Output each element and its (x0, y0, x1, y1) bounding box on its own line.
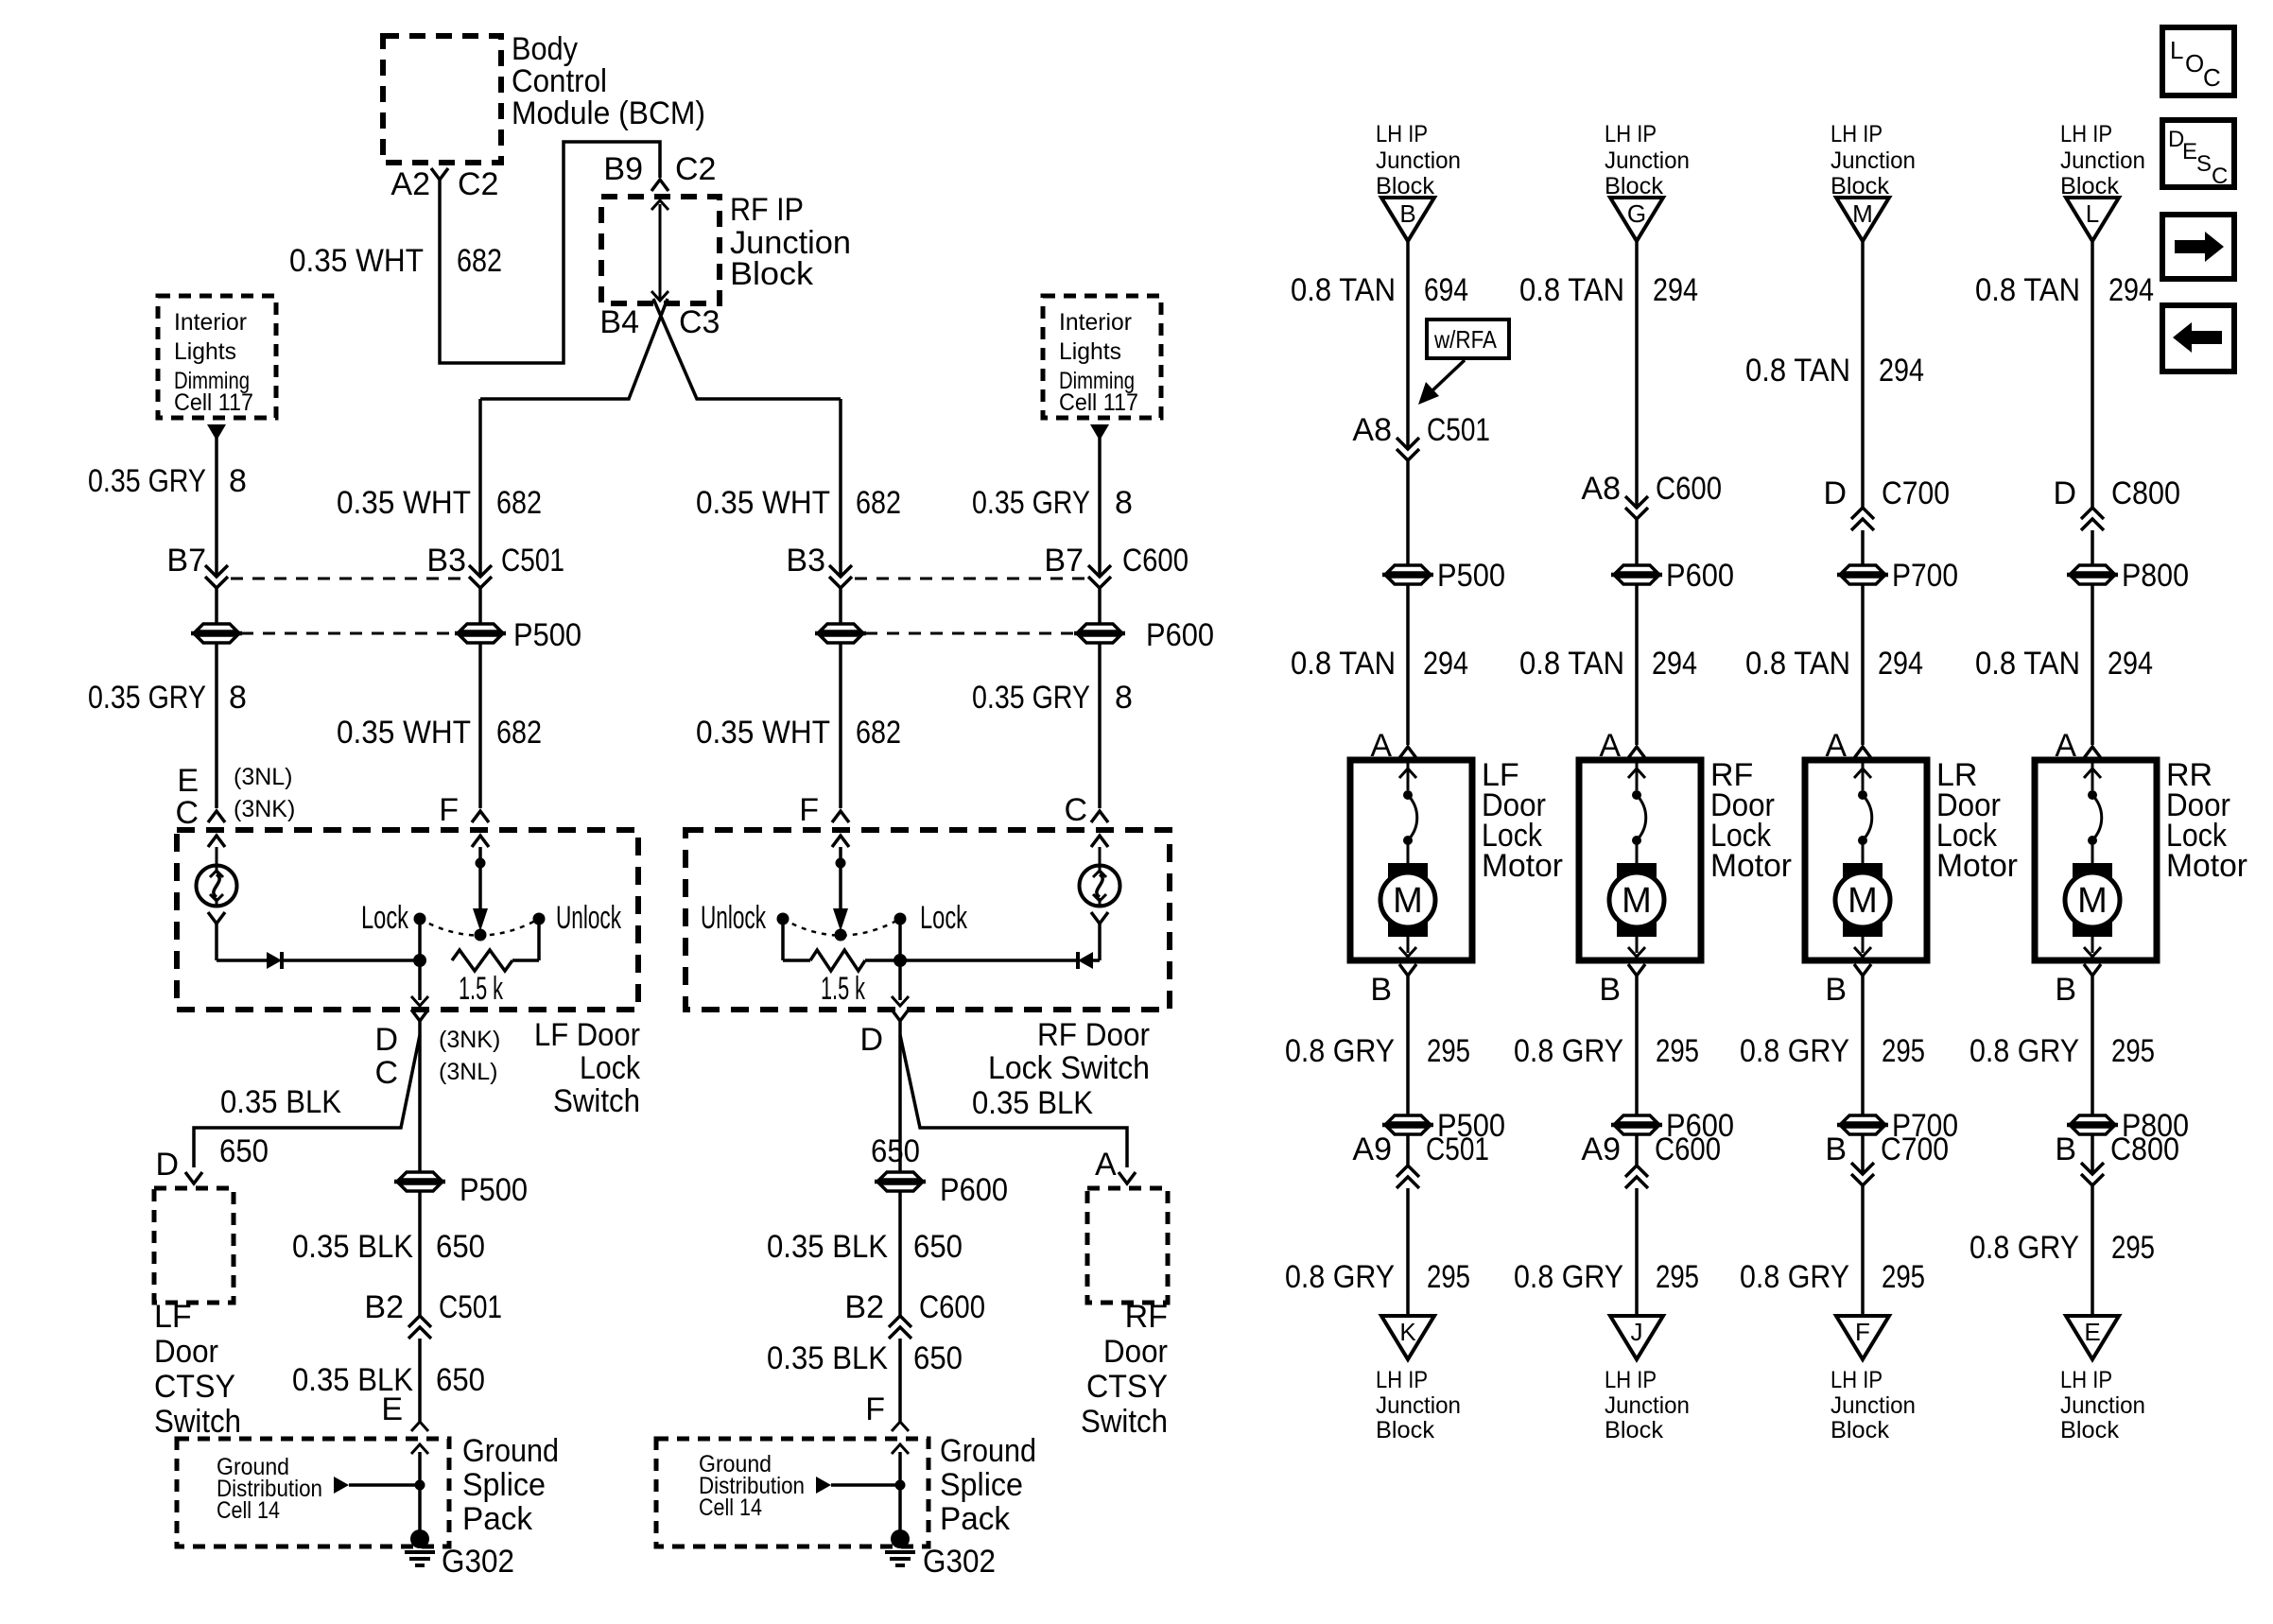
svg-text:C: C (175, 795, 199, 831)
svg-text:B: B (1399, 199, 1415, 228)
svg-text:Switch: Switch (154, 1404, 241, 1440)
svg-text:Junction: Junction (2060, 1392, 2145, 1419)
svg-text:Interior: Interior (174, 309, 247, 336)
Lock contact LF (361, 900, 426, 960)
w/RFA flag box (1427, 320, 1509, 358)
LH IP junction block label bottom LR column (1831, 1367, 1916, 1443)
svg-text:Cell 117: Cell 117 (174, 389, 253, 416)
svg-text:650: 650 (913, 1229, 963, 1265)
wire P600 to B2 (898, 1192, 902, 1316)
svg-text:G302: G302 (923, 1544, 996, 1580)
svg-text:F: F (865, 1391, 885, 1427)
svg-text:Block: Block (1605, 173, 1663, 199)
connector A9 C501 lower LF (1352, 1132, 1489, 1188)
svg-text:P600: P600 (1666, 558, 1734, 594)
Lock contact RF (894, 900, 968, 960)
svg-text:B: B (2055, 972, 2076, 1008)
svg-text:C600: C600 (1122, 543, 1189, 579)
svg-text:295: 295 (1882, 1033, 1925, 1069)
svg-text:LH IP: LH IP (2060, 1367, 2112, 1393)
wire label 0.8 TAN 694 upper LF (1291, 272, 1468, 308)
svg-text:Splice: Splice (940, 1467, 1023, 1503)
svg-text:C800: C800 (2110, 1132, 2179, 1167)
pin fork into LF switch at E C (208, 811, 225, 822)
pin E C labels left (175, 763, 295, 831)
connector P500 LF (455, 617, 581, 653)
svg-text:(3NK): (3NK) (439, 1027, 500, 1053)
Interior Lights Dimming label left (174, 309, 253, 416)
svg-text:Block: Block (1831, 1417, 1889, 1443)
svg-text:B2: B2 (844, 1289, 884, 1325)
wire RF white 682 upper (839, 399, 842, 577)
svg-text:E: E (2084, 1318, 2100, 1346)
svg-text:C: C (374, 1055, 398, 1091)
Interior Lights Dimming label right (1059, 309, 1138, 416)
LF door lock switch box (177, 830, 638, 1010)
svg-text:650: 650 (913, 1340, 963, 1376)
svg-text:B7: B7 (1044, 543, 1084, 579)
wire label 0.35 BLK 650 branch RF (871, 1085, 1093, 1169)
svg-text:F: F (1855, 1318, 1870, 1346)
svg-text:M: M (1622, 881, 1652, 921)
wire label 0.8 TAN 294 lower LF (1291, 646, 1468, 682)
RF door lock motor label (1710, 757, 1792, 884)
svg-text:Pack: Pack (462, 1501, 533, 1537)
wire to triangle J (1635, 1135, 1639, 1166)
svg-text:8: 8 (1115, 680, 1133, 716)
connector A8 C600 RF (1581, 471, 1722, 519)
wire motor B to P500 LF (1406, 976, 1410, 1114)
pin F into ground splice right (865, 1391, 909, 1431)
svg-text:LH IP: LH IP (1605, 1367, 1657, 1393)
ground splice pack label right (940, 1433, 1036, 1537)
junction block triangle B (1381, 198, 1434, 241)
svg-text:694: 694 (1424, 272, 1468, 308)
wire label 0.8 TAN 294 lower RR (1975, 646, 2153, 682)
svg-text:Block: Block (2060, 173, 2119, 199)
svg-text:B3: B3 (426, 543, 466, 579)
connector B2 C501 (364, 1289, 502, 1339)
svg-text:0.8 TAN: 0.8 TAN (1745, 646, 1850, 682)
svg-text:Junction: Junction (1831, 1392, 1916, 1419)
wire B2 to ground splice (418, 1339, 422, 1422)
svg-text:294: 294 (1653, 272, 1698, 308)
wire label 0.8 GRY 295 lower LF (1285, 1259, 1470, 1295)
output triangle left dimming cell (207, 424, 226, 441)
wire LF white 682 lower (478, 644, 482, 808)
wire label 0.8 GRY 295 lower LR (1740, 1259, 1925, 1295)
junction block triangle K (1381, 1316, 1434, 1359)
svg-text:C501: C501 (501, 543, 564, 579)
wire LF switch D to ground path (418, 1021, 422, 1171)
wire P700 to motor LR (1861, 585, 1865, 745)
svg-text:C700: C700 (1881, 1132, 1949, 1167)
LR door lock motor (1805, 760, 1927, 960)
connector P500 left half (dimmer side) (196, 624, 237, 631)
svg-text:F: F (439, 792, 459, 828)
svg-text:A9: A9 (1352, 1132, 1392, 1167)
svg-text:B: B (2055, 1132, 2076, 1167)
svg-text:C600: C600 (919, 1289, 985, 1325)
svg-text:Lock: Lock (580, 1050, 641, 1086)
svg-text:M: M (1393, 881, 1423, 921)
connector P800 lower RR (2067, 1108, 2189, 1144)
svg-text:0.8 TAN: 0.8 TAN (1975, 272, 2080, 308)
LF door CTSY switch label (154, 1299, 241, 1440)
svg-text:M: M (1848, 881, 1878, 921)
svg-text:A8: A8 (1352, 412, 1392, 448)
svg-text:295: 295 (2111, 1230, 2155, 1266)
svg-text:682: 682 (856, 715, 901, 751)
pin A2 C2 of BCM (390, 166, 498, 202)
svg-text:0.35 WHT: 0.35 WHT (337, 485, 471, 521)
LF switch common branch from F (472, 836, 489, 931)
wire left gray 8 circuit upper (215, 438, 218, 577)
wire label 0.8 GRY 295 upper RF (1514, 1033, 1699, 1069)
wire to triangle E (2091, 1135, 2094, 1174)
wire label 0.8 TAN 294 upper RR (1975, 272, 2154, 308)
junction block triangle J (1610, 1316, 1663, 1359)
wire triangle B to connector (1406, 241, 1410, 449)
pin fork into RF switch at F (832, 811, 849, 822)
svg-text:Door: Door (1103, 1334, 1168, 1370)
svg-text:F: F (799, 792, 819, 828)
svg-text:Junction: Junction (1605, 147, 1690, 174)
svg-text:S: S (2196, 151, 2212, 177)
svg-text:E: E (381, 1391, 403, 1427)
wire triangle M to connector (1861, 241, 1865, 508)
RF switch output arrow to D (892, 960, 909, 1006)
svg-text:O: O (2185, 49, 2204, 78)
svg-text:C600: C600 (1655, 1132, 1721, 1167)
svg-text:B: B (1370, 972, 1392, 1008)
wire label 0.8 TAN 294 lower RF (1519, 646, 1697, 682)
svg-text:LH IP: LH IP (1831, 1367, 1883, 1393)
svg-text:B2: B2 (364, 1289, 404, 1325)
wire connector to P700 LR (1861, 530, 1865, 564)
RF switch common branch from F (832, 836, 849, 931)
LF switch lamp branch (197, 836, 237, 960)
svg-text:1.5 k: 1.5 k (821, 971, 866, 1007)
svg-text:294: 294 (1652, 646, 1697, 682)
svg-text:Ground: Ground (940, 1433, 1036, 1469)
svg-text:Motor: Motor (1936, 848, 2018, 884)
svg-text:P800: P800 (2122, 558, 2189, 594)
wire RF white 682 lower (839, 644, 842, 808)
LH IP junction block label top RR column (2060, 121, 2145, 199)
wire label 0.35 WHT 682 LF lower (337, 715, 542, 751)
wire right gray 8 upper (1098, 438, 1102, 577)
ground distribution arrow right (816, 1477, 906, 1494)
svg-text:LH IP: LH IP (1831, 121, 1883, 147)
svg-text:0.8 TAN: 0.8 TAN (1745, 353, 1850, 389)
svg-text:Junction: Junction (1376, 147, 1461, 174)
RF IP junction block label (730, 192, 851, 292)
output triangle right dimming cell (1090, 424, 1109, 441)
wire label 0.8 GRY 295 upper LR (1740, 1033, 1925, 1069)
svg-text:C3: C3 (679, 304, 720, 340)
svg-text:E: E (2182, 139, 2197, 164)
connector P600 lower RF (1611, 1108, 1734, 1144)
wire label 0.35 GRY 8 left upper (88, 463, 247, 499)
svg-text:0.8 GRY: 0.8 GRY (1285, 1033, 1395, 1069)
svg-text:Interior: Interior (1059, 309, 1132, 336)
svg-text:D: D (2053, 475, 2076, 511)
svg-text:295: 295 (1427, 1259, 1470, 1295)
connector D C800 RR (2053, 475, 2180, 530)
connector P600 right half (1079, 624, 1120, 631)
svg-text:LH IP: LH IP (1376, 1367, 1428, 1393)
wire label 0.8 TAN 294 upper RF (1519, 272, 1698, 308)
svg-text:LH IP: LH IP (1376, 121, 1428, 147)
wire RF switch D to ground path (898, 1021, 902, 1171)
svg-text:RF Door: RF Door (1037, 1017, 1150, 1053)
svg-text:RF: RF (1125, 1299, 1168, 1335)
wiper dashed arc RF (783, 919, 900, 936)
DESC nav box (2162, 120, 2234, 189)
svg-text:295: 295 (1656, 1033, 1699, 1069)
wire label 0.8 TAN 294 upper LR (1745, 353, 1924, 389)
wire label 0.8 GRY 295 upper RR (1969, 1033, 2155, 1069)
wire label 0.35 BLK 650 RF mid (767, 1229, 963, 1265)
svg-text:650: 650 (436, 1229, 485, 1265)
svg-text:B: B (1825, 1132, 1847, 1167)
svg-text:0.35 BLK: 0.35 BLK (220, 1084, 341, 1120)
svg-text:Splice: Splice (462, 1467, 546, 1503)
BCM label (512, 31, 705, 131)
wire to triangle F (1861, 1135, 1865, 1174)
connector A8 C501 LF (1352, 412, 1490, 460)
svg-text:C501: C501 (1426, 1132, 1489, 1167)
LH IP junction block label top RF column (1605, 121, 1690, 199)
svg-text:294: 294 (1879, 353, 1924, 389)
dashed link P500 pair (241, 632, 457, 635)
svg-text:Cell 14: Cell 14 (217, 1497, 280, 1524)
svg-text:295: 295 (1427, 1033, 1470, 1069)
next arrow nav box (2162, 215, 2234, 279)
wire label 0.35 WHT 682 LF (337, 485, 542, 521)
svg-text:P500: P500 (460, 1172, 528, 1208)
svg-text:1.5 k: 1.5 k (459, 971, 504, 1007)
svg-text:0.35 GRY: 0.35 GRY (972, 485, 1090, 521)
LF door lock motor label (1482, 757, 1563, 884)
junction block triangle F (1836, 1316, 1889, 1359)
wire LF white to P500 (478, 588, 482, 623)
wire connector to P500 LF (1406, 460, 1410, 564)
wire label 0.35 GRY 8 left lower (88, 680, 247, 716)
svg-text:A2: A2 (390, 166, 430, 202)
wire label 0.35 GRY 8 right lower (972, 680, 1133, 716)
svg-text:8: 8 (229, 463, 247, 499)
resistor 1.5 k RF (783, 950, 907, 1007)
svg-text:G302: G302 (442, 1544, 514, 1580)
svg-text:RF IP: RF IP (730, 192, 804, 228)
pin D of RF switch (859, 1010, 909, 1058)
connector B C800 lower RR (2055, 1132, 2179, 1185)
svg-text:Block: Block (1376, 1417, 1434, 1443)
pin fork into LF switch at F (472, 811, 489, 822)
connector B3 RF (786, 543, 852, 588)
svg-text:B: B (1825, 972, 1847, 1008)
svg-text:P500: P500 (1437, 558, 1505, 594)
svg-text:Block: Block (1605, 1417, 1663, 1443)
svg-text:(3NK): (3NK) (234, 796, 295, 822)
LH IP junction block label top LR column (1831, 121, 1916, 199)
wire triangle G to connector (1635, 241, 1639, 508)
svg-text:D: D (859, 1022, 883, 1058)
wire branch to LF CTSY switch (194, 1035, 420, 1167)
RF IP junction block box (601, 197, 720, 303)
svg-text:A9: A9 (1581, 1132, 1621, 1167)
pin D of LF CTSY switch (155, 1147, 202, 1183)
LR door lock motor label (1936, 757, 2018, 884)
ground splice wire left (411, 1444, 428, 1539)
svg-text:682: 682 (496, 485, 542, 521)
wire label 0.35 BLK 650 LF mid (292, 1229, 485, 1265)
LF door CTSY switch box (154, 1188, 234, 1303)
svg-text:Lights: Lights (1059, 338, 1121, 365)
connector P600 lower (875, 1172, 1008, 1208)
wire label 0.35 WHT 682 RF lower (696, 715, 901, 751)
svg-text:Junction: Junction (1831, 147, 1916, 174)
svg-text:0.8 GRY: 0.8 GRY (1285, 1259, 1395, 1295)
RF door CTSY switch label (1081, 1299, 1168, 1440)
svg-text:Motor: Motor (1710, 848, 1792, 884)
svg-text:0.8 GRY: 0.8 GRY (1740, 1259, 1849, 1295)
svg-text:Switch: Switch (1081, 1404, 1168, 1440)
svg-text:(3NL): (3NL) (439, 1059, 498, 1085)
svg-text:Body: Body (512, 31, 578, 67)
svg-text:295: 295 (1656, 1259, 1699, 1295)
svg-text:D: D (155, 1147, 179, 1183)
svg-text:E: E (177, 763, 199, 799)
connector B7 left (166, 543, 228, 588)
LF switch output arrow to D (411, 960, 428, 1006)
svg-text:D: D (1823, 475, 1847, 511)
wire BCM A2 to RF IP junction block B9 (440, 142, 660, 363)
ground G302 left (405, 1529, 514, 1580)
svg-text:295: 295 (1882, 1259, 1925, 1295)
svg-text:Lights: Lights (174, 338, 236, 365)
Interior Lights Dimming Cell 117 box right (1043, 296, 1161, 418)
svg-text:w/RFA: w/RFA (1433, 325, 1497, 354)
svg-text:0.35 GRY: 0.35 GRY (972, 680, 1090, 716)
RR door lock motor label (2166, 757, 2247, 884)
pin B9 C2 of junction block (603, 151, 716, 191)
svg-text:C2: C2 (458, 166, 498, 202)
svg-text:Block: Block (1831, 173, 1889, 199)
LF door lock switch label (534, 1017, 641, 1119)
svg-text:M: M (2077, 881, 2108, 921)
svg-text:M: M (1852, 199, 1873, 228)
svg-text:Lock Switch: Lock Switch (988, 1050, 1150, 1086)
wire B2 to ground splice right (898, 1339, 902, 1422)
wire label 0.35 WHT 682 (289, 243, 502, 279)
svg-text:Module (BCM): Module (BCM) (512, 95, 705, 131)
svg-text:L: L (2086, 199, 2099, 228)
svg-text:682: 682 (496, 715, 542, 751)
junction block triangle L (2066, 198, 2119, 241)
wire P500 to motor LF (1406, 585, 1410, 745)
svg-text:0.8 TAN: 0.8 TAN (1291, 272, 1396, 308)
wire right gray to P600 (1098, 588, 1102, 623)
svg-text:D: D (374, 1022, 398, 1058)
svg-text:294: 294 (2108, 272, 2154, 308)
svg-text:B4: B4 (599, 304, 639, 340)
svg-text:0.35 GRY: 0.35 GRY (88, 680, 206, 716)
pin E into ground splice left (381, 1391, 428, 1431)
RF door lock switch box (685, 830, 1170, 1010)
svg-text:0.8 TAN: 0.8 TAN (1519, 272, 1624, 308)
wire motor B to P600 RF (1635, 976, 1639, 1114)
svg-text:B3: B3 (786, 543, 825, 579)
ground splice pack label left (462, 1433, 559, 1537)
svg-text:CTSY: CTSY (154, 1369, 235, 1405)
wire through junction block (651, 200, 668, 301)
wire left gray 8 circuit lower (215, 644, 218, 808)
wire label 0.35 GRY 8 right (972, 485, 1133, 521)
svg-text:0.35 BLK: 0.35 BLK (767, 1229, 888, 1265)
wire triangle L to connector (2091, 241, 2094, 508)
svg-text:0.8 GRY: 0.8 GRY (1969, 1230, 2079, 1266)
svg-text:Pack: Pack (940, 1501, 1011, 1537)
diode RF (900, 952, 1100, 969)
svg-text:0.35 GRY: 0.35 GRY (88, 463, 206, 499)
svg-text:Junction: Junction (1605, 1392, 1690, 1419)
LH IP junction block label bottom RR column (2060, 1367, 2145, 1443)
svg-text:P600: P600 (940, 1172, 1008, 1208)
wire P600 to motor RF (1635, 585, 1639, 745)
svg-text:650: 650 (436, 1362, 485, 1398)
svg-text:P700: P700 (1892, 558, 1958, 594)
Unlock contact RF (701, 900, 789, 960)
svg-text:Junction: Junction (2060, 147, 2145, 174)
svg-text:B7: B7 (166, 543, 206, 579)
junction block triangle M (1836, 198, 1889, 241)
connector A9 C600 lower RF (1581, 1132, 1721, 1188)
BCM module box (383, 36, 501, 163)
svg-text:(3NL): (3NL) (234, 764, 293, 790)
wire branch to RF CTSY switch (900, 1035, 1127, 1167)
RF switch lamp branch (1080, 836, 1120, 960)
svg-text:Motor: Motor (2166, 848, 2247, 884)
RF door lock switch label (988, 1017, 1150, 1086)
previous arrow nav box (2162, 305, 2234, 371)
svg-text:294: 294 (1423, 646, 1468, 682)
svg-text:C501: C501 (439, 1289, 502, 1325)
ground distribution label right (699, 1451, 805, 1521)
connector P700 upper LR (1837, 558, 1958, 594)
svg-text:LH IP: LH IP (2060, 121, 2112, 147)
pin B4 C3 splice (599, 304, 720, 340)
svg-text:Unlock: Unlock (701, 900, 767, 936)
svg-text:Unlock: Unlock (556, 900, 622, 936)
svg-text:A: A (1095, 1147, 1117, 1183)
connector P500 lower (394, 1172, 528, 1208)
svg-text:B: B (1599, 972, 1621, 1008)
wire connector to P600 RF (1635, 519, 1639, 564)
svg-text:C501: C501 (1427, 412, 1490, 448)
wire right gray 8 lower (1098, 644, 1102, 808)
svg-text:682: 682 (457, 243, 502, 279)
wire label 0.35 BLK 650 LF low (292, 1362, 485, 1398)
svg-text:8: 8 (229, 680, 247, 716)
ground splice pack box left (177, 1439, 449, 1546)
LH IP junction block label bottom RF column (1605, 1367, 1690, 1443)
svg-text:C: C (2212, 164, 2228, 189)
svg-text:0.35 BLK: 0.35 BLK (972, 1085, 1093, 1121)
svg-text:C: C (1064, 792, 1087, 828)
